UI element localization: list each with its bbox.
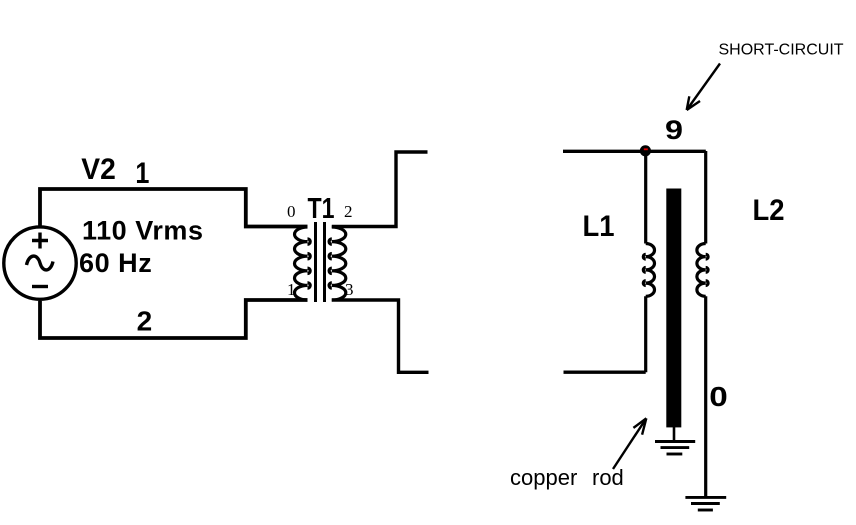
wire secondary bottom stub [332, 300, 429, 372]
svg-text:60 Hz: 60 Hz [79, 248, 152, 278]
svg-text:SHORT-CIRCUIT: SHORT-CIRCUIT [719, 42, 844, 59]
svg-text:L2: L2 [753, 194, 785, 227]
transformer T1 secondary winding [329, 227, 346, 300]
svg-text:110 Vrms: 110 Vrms [82, 216, 204, 246]
svg-text:0: 0 [287, 202, 296, 221]
svg-text:3: 3 [345, 280, 354, 299]
svg-text:rod: rod [592, 465, 624, 490]
svg-text:0: 0 [709, 381, 728, 412]
ground under L2 [685, 497, 726, 510]
svg-text:copper: copper [510, 465, 577, 490]
svg-text:2: 2 [344, 202, 353, 221]
copper rod ground stem [673, 427, 676, 442]
ground under copper rod [655, 442, 695, 455]
copper rod [666, 189, 681, 428]
transformer T1 primary winding [295, 227, 311, 300]
wire secondary top stub [332, 152, 428, 227]
wire top of right circuit (node 9) [563, 150, 706, 153]
wire bottom stub of L1 [564, 371, 646, 374]
svg-text:V2: V2 [81, 153, 116, 186]
svg-text:T1: T1 [308, 193, 335, 225]
svg-text:1: 1 [287, 280, 296, 299]
wire top from V2 [40, 189, 308, 227]
junction node 9 dot [640, 145, 651, 156]
svg-text:2: 2 [137, 306, 153, 337]
red mark on junction [644, 148, 648, 150]
svg-text:1: 1 [135, 157, 149, 190]
inductor L2 [697, 151, 708, 497]
svg-text:L1: L1 [583, 210, 615, 243]
svg-text:9: 9 [665, 115, 683, 145]
inductor L1 [643, 151, 654, 372]
transformer T1 core [316, 222, 325, 302]
arrow to copper rod [613, 418, 646, 469]
voltage source V2 [4, 227, 76, 299]
wire bottom from V2 [40, 300, 308, 338]
arrow to junction (short-circuit) [687, 64, 720, 111]
